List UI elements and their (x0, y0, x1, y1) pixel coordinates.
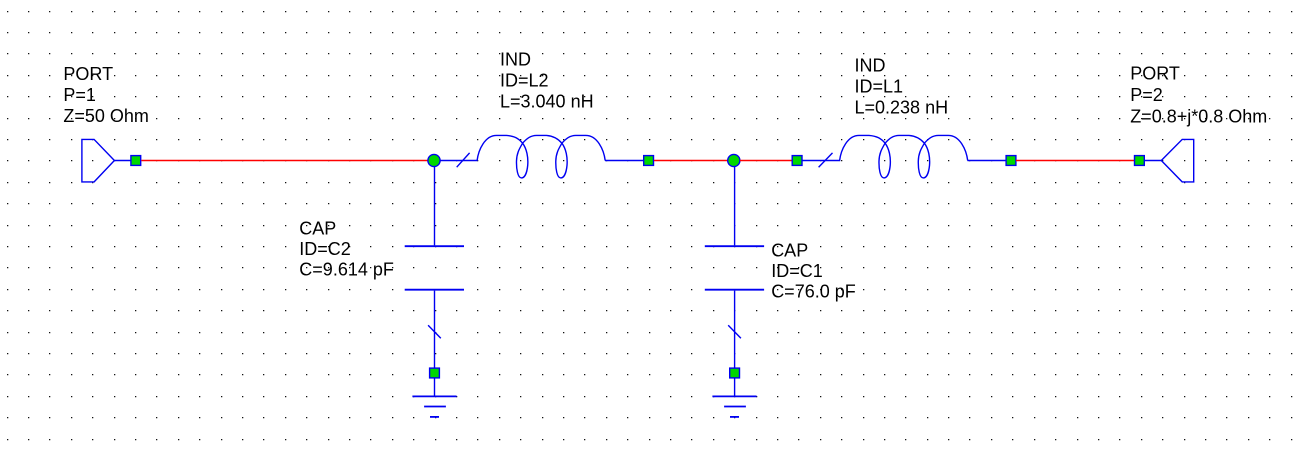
C1 pin 2 marker slash (728, 325, 741, 338)
capacitor C1 (705, 167, 764, 378)
svg-text:ID=C1: ID=C1 (771, 261, 823, 281)
C2 top plate (405, 245, 464, 247)
wire W4 (L1 to port P2) (1016, 160, 1134, 162)
port P1 (82, 139, 115, 182)
svg-text:ID=L2: ID=L2 (500, 70, 549, 90)
wire W2 (L2 to node N2) (654, 160, 730, 162)
port P2 (1161, 139, 1193, 182)
svg-text:P=1: P=1 (63, 85, 96, 105)
wire L1 right lead (968, 160, 1007, 162)
svg-text:L=0.238 nH: L=0.238 nH (855, 98, 949, 118)
svg-text:L=3.040 nH: L=3.040 nH (500, 91, 594, 111)
wire GND2 lead (734, 378, 736, 396)
wire port P1 lead (114, 160, 131, 162)
L1 pin 1 marker slash (819, 153, 833, 167)
inductor L1 (792, 135, 1016, 178)
svg-text:PORT: PORT (1130, 63, 1180, 83)
L2 coil (477, 135, 605, 178)
wire port P2 lead (1144, 160, 1161, 162)
svg-text:ID=L1: ID=L1 (855, 77, 904, 97)
svg-text:Z=0.8+j*0.8 Ohm: Z=0.8+j*0.8 Ohm (1130, 106, 1267, 126)
GND2 bar 1 (712, 395, 756, 397)
GND1 bar 1 (412, 395, 456, 397)
port P1 pin 1 (131, 156, 141, 166)
svg-text:C=9.614 pF: C=9.614 pF (299, 259, 394, 279)
svg-text:ID=C2: ID=C2 (299, 239, 351, 259)
wire C1 bottom lead (734, 291, 736, 369)
svg-text:PORT: PORT (63, 64, 113, 84)
GND2 bar 2 (724, 406, 746, 408)
wire C2 top lead (434, 167, 436, 246)
L2 pin 2 (644, 156, 654, 166)
capacitor C2 (405, 167, 464, 378)
svg-text:IND: IND (500, 49, 531, 69)
wire L2 left lead (440, 160, 478, 162)
node N1 junction (428, 154, 440, 166)
L2 pin 1 marker slash (457, 153, 470, 167)
wire C2 bottom lead (434, 291, 436, 369)
L1 coil (840, 135, 968, 178)
node N2 junction (728, 154, 740, 166)
ground GND2 (C1) (712, 378, 756, 417)
C2 bottom plate (405, 289, 464, 291)
L1 pin 2 (1006, 156, 1016, 166)
svg-text:C=76.0 pF: C=76.0 pF (771, 282, 856, 302)
C2 pin 2 marker slash (428, 325, 441, 338)
C1 pin 2 (730, 368, 740, 378)
wire L1 left lead (802, 160, 840, 162)
C2 pin 2 (430, 368, 440, 378)
C1 bottom plate (705, 289, 764, 291)
wire W1 (port P1 to node N1) (141, 160, 431, 162)
svg-text:CAP: CAP (299, 218, 336, 238)
ground GND1 (C2) (412, 378, 456, 417)
wire GND1 lead (434, 378, 436, 396)
L1 pin 1 (792, 156, 802, 166)
svg-text:Z=50 Ohm: Z=50 Ohm (63, 106, 149, 126)
wire L2 right lead (605, 160, 644, 162)
GND1 bar 2 (424, 406, 446, 408)
GND1 bar 3 (430, 416, 439, 418)
port P2 pin 1 (1135, 156, 1145, 166)
inductor L2 (440, 135, 654, 178)
wire W3 (node N2 to L1) (740, 160, 792, 162)
C1 top plate (705, 245, 764, 247)
svg-text:CAP: CAP (771, 240, 808, 260)
GND2 bar 3 (730, 416, 739, 418)
svg-text:P=2: P=2 (1130, 85, 1163, 105)
wire C1 top lead (734, 167, 736, 246)
svg-text:IND: IND (855, 56, 886, 76)
